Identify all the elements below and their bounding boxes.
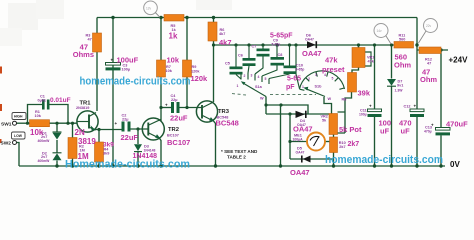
svg-text:uF: uF <box>401 127 411 136</box>
node ground D7 <box>390 164 393 167</box>
svg-text:S1a: S1a <box>255 85 263 89</box>
label S1a switch numbers <box>237 74 267 89</box>
label S1b switch numbers <box>302 73 334 89</box>
node S1b drop <box>323 113 325 115</box>
node bus C6 <box>247 43 250 46</box>
capacitor C3 100uF <box>106 63 121 71</box>
label ME1 ref <box>293 134 304 142</box>
label C9 ref <box>272 39 281 47</box>
svg-text:3819: 3819 <box>78 137 96 146</box>
svg-text:Ohms: Ohms <box>73 50 94 59</box>
annotation circle A2 <box>374 24 391 45</box>
wire TR1 source to C2 <box>96 129 122 131</box>
svg-text:560: 560 <box>399 37 405 41</box>
svg-text:12v: 12v <box>146 7 152 11</box>
label C4 ref <box>171 94 178 102</box>
wire R9 to TR3 base bias <box>186 77 188 108</box>
switch S1b wiper arrowhead <box>303 87 308 91</box>
svg-text:2k7: 2k7 <box>339 145 345 149</box>
diode D5 OA47 <box>302 156 311 163</box>
wire bus to S1b contact <box>296 45 300 89</box>
svg-text:9v1: 9v1 <box>397 83 403 87</box>
WATERMARKS <box>65 76 443 171</box>
switch S1a wiper arrowhead <box>241 81 246 85</box>
svg-text:C8: C8 <box>278 53 283 57</box>
svg-text:5-65: 5-65 <box>287 76 301 83</box>
wire R4 column <box>98 130 100 167</box>
wire C6 leads <box>248 45 249 73</box>
wire C11 column <box>374 45 376 166</box>
terminal SW2 <box>13 141 17 145</box>
svg-text:10k: 10k <box>35 114 42 118</box>
node bus C10 <box>288 43 291 46</box>
label R1 ref <box>35 110 42 118</box>
svg-text:1k: 1k <box>169 32 178 41</box>
diode D6 OA47 <box>307 41 316 48</box>
wire TR2 collector column <box>160 77 162 121</box>
node ground R2 <box>71 164 74 167</box>
svg-text:100µA: 100µA <box>293 137 304 141</box>
node D5 drop <box>288 112 291 115</box>
resistor R12 47 Ohm <box>419 47 441 54</box>
node bus-corner junction <box>415 43 418 46</box>
label R10 ref <box>339 141 346 149</box>
wire D7 column <box>391 45 393 166</box>
label R3 ref <box>86 34 92 42</box>
label R4 ref <box>103 148 109 156</box>
wire top supply rail <box>97 17 417 19</box>
label C10 ref <box>296 64 305 72</box>
scan artifact left edge 3 <box>0 139 2 143</box>
svg-text:+: + <box>431 123 434 128</box>
svg-text:1.3W: 1.3W <box>395 89 404 93</box>
svg-text:OA47: OA47 <box>305 37 314 41</box>
node ground D3 <box>136 164 139 167</box>
svg-text:5-65p: 5-65p <box>296 67 305 71</box>
svg-text:OA47: OA47 <box>293 125 313 134</box>
switch S1b contact ticks <box>300 72 345 91</box>
label VR1 ref <box>367 56 375 64</box>
resistor R9 120k <box>183 60 192 77</box>
wire TR2 emitter column <box>160 138 162 166</box>
wire VR2 top lead <box>333 135 335 138</box>
wire bottom ground rail <box>19 165 445 167</box>
label D2 ref <box>38 152 51 163</box>
trimmer C10 5-65pF <box>284 66 297 75</box>
node bus TR3 collector <box>212 43 215 46</box>
svg-text:C5: C5 <box>225 62 230 66</box>
wire R2 column <box>72 123 74 166</box>
node TR1 source junction <box>97 128 100 131</box>
resistor R10 2k7 <box>330 137 338 153</box>
node top rail R6 <box>212 16 215 19</box>
wire R8 bottom to detector line <box>345 92 352 133</box>
svg-text:C6: C6 <box>238 54 243 58</box>
label D5 ref <box>296 147 305 155</box>
resistor R1 10k <box>30 120 50 127</box>
label C12 value <box>399 119 412 136</box>
node ground R10 <box>332 164 335 167</box>
label D3 ref <box>144 145 156 153</box>
label R12 value <box>420 68 437 85</box>
svg-text:100µ: 100µ <box>359 112 367 116</box>
node mid 281 <box>279 103 282 106</box>
svg-text:5: 5 <box>265 77 267 81</box>
wire S1a wiper drop <box>265 97 267 115</box>
mechanical link dashed <box>232 94 316 96</box>
svg-text:Ohm: Ohm <box>420 75 437 84</box>
wire C1 bypass loop <box>28 105 69 124</box>
node R12 right <box>439 48 442 51</box>
svg-text:4k7: 4k7 <box>219 38 232 47</box>
svg-text:BC548: BC548 <box>216 119 239 128</box>
wire meter left <box>290 141 307 143</box>
wire S1b wiper drop <box>324 97 332 114</box>
svg-text:0.01uF: 0.01uF <box>50 97 71 104</box>
label R2 ref <box>79 145 85 153</box>
svg-text:C12: C12 <box>404 105 411 109</box>
wire D5 row <box>290 158 334 160</box>
node top rail R7 <box>159 16 162 19</box>
svg-text:SW2: SW2 <box>1 141 12 147</box>
svg-text:2N3819: 2N3819 <box>76 106 89 110</box>
svg-text:TABLE 2: TABLE 2 <box>227 155 246 160</box>
scan artifact left edge 1 <box>0 67 2 74</box>
svg-text:100uF: 100uF <box>117 56 139 65</box>
svg-text:W: W <box>260 97 264 101</box>
diode D4 OA47 <box>296 111 306 118</box>
wire C12 column <box>416 50 418 166</box>
svg-text:4: 4 <box>258 75 260 79</box>
node bus C7 <box>261 43 264 46</box>
wire TR3 emitter column <box>214 121 216 166</box>
switch S1a wiper arm <box>243 83 267 97</box>
capacitor C5 <box>230 67 243 75</box>
resistor R8 39k <box>348 73 357 93</box>
svg-text:10k: 10k <box>167 56 180 65</box>
node R9 joins base <box>185 106 188 109</box>
WIRES-LEFT <box>13 16 446 168</box>
svg-text:10k: 10k <box>166 69 173 73</box>
svg-text:39k: 39k <box>358 89 371 98</box>
svg-text:470µ: 470µ <box>424 129 432 133</box>
capacitor C12 470uF <box>410 109 424 117</box>
transistor TR1 2N3819 <box>77 111 98 132</box>
wire TR3 collector column <box>213 45 215 102</box>
label C1 ref <box>38 95 47 103</box>
capacitor C11 100uF <box>368 109 382 117</box>
svg-text:LOW: LOW <box>14 134 23 138</box>
svg-text:400mW: 400mW <box>38 159 51 163</box>
svg-text:1N4148: 1N4148 <box>144 148 156 152</box>
label R11 ref <box>399 34 406 42</box>
resistor R7 10k <box>157 60 166 77</box>
resistor R4 3k9 <box>95 142 104 162</box>
label D1 ref <box>38 132 51 143</box>
label VR1 value <box>322 56 345 75</box>
svg-text:* SEE TEXT AND: * SEE TEXT AND <box>221 149 258 154</box>
svg-text:OA47: OA47 <box>296 150 305 154</box>
svg-text:uF: uF <box>380 127 390 136</box>
scan artifact left edge 2 <box>0 104 2 111</box>
svg-text:5-65p: 5-65p <box>272 42 281 46</box>
svg-text:22uF: 22uF <box>170 114 188 123</box>
node R2 top <box>71 122 74 125</box>
svg-text:OA47: OA47 <box>302 49 322 58</box>
resistor R11 560 Ohm <box>394 42 414 49</box>
svg-text:pF: pF <box>286 84 295 91</box>
svg-text:22µ: 22µ <box>122 118 128 122</box>
wire C10 leads <box>269 45 290 79</box>
svg-text:+: + <box>115 121 118 126</box>
node top rail C3 <box>111 16 114 19</box>
svg-text:R9: R9 <box>192 65 197 69</box>
wire SW1 input <box>17 122 30 124</box>
wire VR1 top lead <box>358 45 360 48</box>
node meter left <box>288 140 291 143</box>
capacitor C13 470uF <box>436 128 451 136</box>
label R6 ref <box>219 28 225 36</box>
label C3 ref <box>122 64 131 72</box>
node ground TR2e <box>159 164 162 167</box>
svg-text:TR3: TR3 <box>218 109 230 115</box>
svg-text:2: 2 <box>308 77 310 81</box>
svg-text:BC107: BC107 <box>167 134 179 138</box>
node bus VR1 <box>357 43 360 46</box>
svg-text:100µ: 100µ <box>122 68 131 72</box>
node C1 right <box>66 122 69 125</box>
wire mid distribution <box>266 105 308 114</box>
wire tuning bus <box>212 44 394 46</box>
annotation circle A3 <box>419 19 438 44</box>
svg-text:3: 3 <box>315 73 317 77</box>
svg-text:+: + <box>165 103 168 108</box>
svg-text:47k: 47k <box>325 56 338 65</box>
svg-text:400mW: 400mW <box>38 139 51 143</box>
preset VR1 47k <box>352 48 365 68</box>
transistor TR3 BC548 <box>196 101 217 122</box>
wire top-right corner down <box>416 18 418 51</box>
node ground C3 <box>111 164 114 167</box>
svg-text:5: 5 <box>332 77 334 81</box>
annotation circle A1 <box>144 1 160 17</box>
node bus D7 <box>390 43 393 46</box>
svg-text:S1b: S1b <box>315 85 323 89</box>
wire R1 to TR1 gate <box>50 122 77 124</box>
PARTS <box>0 1 450 163</box>
svg-text:+: + <box>369 104 372 109</box>
svg-text:homemade-circuits.com: homemade-circuits.com <box>80 76 191 88</box>
switch S1a contacts <box>241 73 269 84</box>
wire R12 supply row <box>417 49 448 51</box>
svg-text:2k7: 2k7 <box>348 141 360 148</box>
svg-text:homemade-circuits.com: homemade-circuits.com <box>325 154 443 166</box>
svg-text:BC107: BC107 <box>167 138 190 147</box>
wire D3 column <box>137 129 139 166</box>
svg-text:preset: preset <box>322 65 345 74</box>
switch S1b wiper arm <box>306 89 325 97</box>
svg-text:120k: 120k <box>191 70 200 74</box>
wire C2 to TR2 base <box>131 128 149 130</box>
label R5 ref <box>171 24 177 32</box>
svg-text:C7: C7 <box>252 45 257 49</box>
svg-text:3k9: 3k9 <box>103 152 109 156</box>
wire VR1 wiper bracket <box>365 52 371 66</box>
capacitor C7 <box>257 49 270 57</box>
wire D5 branch drop <box>289 114 291 159</box>
node ground C12 <box>415 164 418 167</box>
wire C4 coupling from collector <box>161 107 171 109</box>
wire C5 leads <box>236 45 241 79</box>
svg-text:1: 1 <box>237 84 239 88</box>
svg-text:22uF: 22uF <box>121 133 139 142</box>
trimmer C9 5-65pF <box>271 57 285 66</box>
diode D3 1N4148 <box>134 144 142 151</box>
node ground C13 <box>439 164 442 167</box>
WIRES-MID <box>212 43 394 167</box>
wire C7 leads <box>255 45 263 74</box>
svg-text:22v: 22v <box>426 24 432 28</box>
svg-text:+24V: +24V <box>449 56 469 65</box>
svg-text:R8: R8 <box>342 98 347 102</box>
wire C3 column <box>112 18 114 167</box>
wire R9 column <box>186 18 188 61</box>
wire C9 leads <box>262 45 277 76</box>
node ground TR3e <box>214 164 217 167</box>
svg-text:470uF: 470uF <box>446 120 468 129</box>
node C1 left <box>26 122 29 125</box>
label C13 ref <box>424 126 432 134</box>
svg-text:0V: 0V <box>450 160 460 169</box>
svg-text:Homemade-circuits.com: Homemade-circuits.com <box>65 159 190 171</box>
svg-text:Ohm: Ohm <box>394 61 411 70</box>
node bus C11 <box>373 43 376 46</box>
node D3 top <box>136 127 139 130</box>
capacitor C4 22uF <box>171 102 180 113</box>
svg-text:1: 1 <box>302 85 304 89</box>
svg-text:4k7: 4k7 <box>219 32 225 36</box>
node ground C11 <box>373 164 376 167</box>
resistor R3 47 Ohms <box>93 33 102 52</box>
wire SW2 to ground rail <box>17 143 20 167</box>
pot VR2 5k <box>329 114 338 135</box>
capacitor C1 0.01uF <box>42 100 50 110</box>
zener D2 <box>53 153 62 161</box>
LOW input box <box>12 132 26 139</box>
switch S1b rim arc <box>300 71 345 89</box>
meter ME1 100uA <box>307 133 325 151</box>
resistor R2 1M <box>68 138 77 159</box>
wire C4 to TR3 base <box>180 107 203 109</box>
svg-text:TR2: TR2 <box>168 127 179 133</box>
svg-text:47k: 47k <box>368 60 375 64</box>
label D4 ref <box>297 119 306 127</box>
svg-text:14v: 14v <box>377 29 383 33</box>
node bus C5 <box>234 43 237 46</box>
svg-text:22µ: 22µ <box>171 98 177 102</box>
label R9 ref <box>191 65 200 74</box>
label C11 value <box>379 119 392 136</box>
capacitor C6 <box>243 58 256 66</box>
label see text note <box>221 149 258 160</box>
label C11 ref <box>359 109 367 117</box>
wire meter right <box>325 141 329 143</box>
label R11 value <box>394 53 411 70</box>
svg-text:47: 47 <box>427 61 431 65</box>
svg-text:+: + <box>111 58 114 63</box>
node ground R4 <box>97 164 100 167</box>
svg-text:SW1: SW1 <box>1 122 12 128</box>
svg-text:+: + <box>414 104 417 109</box>
label VR2 ref <box>321 115 328 123</box>
transistor TR2 BC107 <box>142 118 164 140</box>
HIGH input box <box>12 113 26 120</box>
WIRES-RIGHT <box>373 43 448 167</box>
label C2 ref <box>122 114 129 122</box>
terminal SW1 <box>13 121 17 125</box>
wire drop to ground 280 <box>280 105 282 166</box>
wire VR1 to R8 <box>352 68 359 73</box>
resistor R5 1k <box>164 15 184 22</box>
node bus S1b feed <box>294 43 297 46</box>
svg-text:HIGH: HIGH <box>14 115 23 119</box>
node mid 266 <box>264 103 267 106</box>
wire R10 bottom <box>333 153 335 167</box>
svg-text:0µ01: 0µ01 <box>38 99 47 103</box>
svg-text:W: W <box>328 97 332 101</box>
label R7 ref <box>166 65 173 73</box>
node C4 left <box>159 106 162 109</box>
wire detector line D4 <box>266 113 329 115</box>
wire VR2 wiper bracket <box>338 112 346 133</box>
zener D7 9v1 <box>387 79 396 86</box>
resistor R6 4k7 <box>208 22 217 41</box>
wire C13 column <box>440 50 442 166</box>
wire R6 column <box>213 18 215 46</box>
node bus C9 <box>275 43 278 46</box>
node diode clamp <box>55 122 58 125</box>
svg-text:2N: 2N <box>75 128 85 137</box>
capacitor C2 22uF <box>122 122 131 132</box>
label TR1 type <box>75 128 97 146</box>
node ground D1 <box>55 164 58 167</box>
node ground 280 <box>279 164 282 167</box>
svg-text:OA47: OA47 <box>290 168 310 175</box>
wire R7 column <box>160 18 162 61</box>
svg-text:120k: 120k <box>191 74 209 83</box>
svg-text:47: 47 <box>88 38 92 42</box>
wire zener clamp column <box>56 123 58 166</box>
svg-text:5k Pot: 5k Pot <box>339 125 362 134</box>
label D6 ref <box>305 34 314 42</box>
label R12 ref <box>425 58 432 66</box>
label D7 ref <box>395 80 404 93</box>
node top rail R9 <box>185 16 188 19</box>
wire TR1 drain column <box>96 18 98 112</box>
svg-text:3: 3 <box>251 74 253 78</box>
label C10 value <box>286 76 301 92</box>
svg-text:2: 2 <box>244 74 246 78</box>
zener D1 <box>53 132 62 140</box>
